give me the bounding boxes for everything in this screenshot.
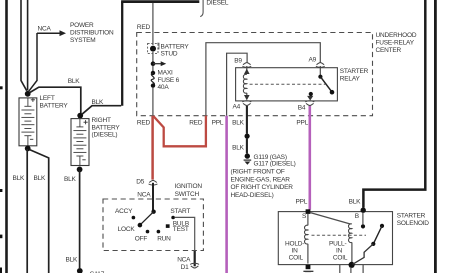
solenoid blade link — [353, 244, 374, 264]
wire: junction to fuse — [152, 66, 154, 71]
svg-text:PPL: PPL — [296, 120, 308, 127]
svg-text:PPL: PPL — [212, 120, 224, 127]
svg-text:RED: RED — [137, 120, 151, 127]
wire: B9 into relay with up arrow — [246, 66, 248, 74]
node: right battery negative terminal — [77, 167, 83, 173]
svg-text:S: S — [302, 213, 307, 220]
svg-text:BLK: BLK — [92, 99, 105, 106]
svg-text:CENTER: CENTER — [376, 47, 402, 54]
tick marks left edge — [0, 86, 3, 89]
relay coil — [243, 74, 246, 93]
ignition switch blade to LOCK — [140, 212, 153, 225]
contact OFF — [146, 230, 150, 234]
svg-text:IN: IN — [292, 247, 299, 254]
wire: solenoid bottom stub 1 — [339, 265, 341, 273]
solenoid contact B — [361, 224, 365, 228]
svg-text:B: B — [355, 213, 359, 220]
wire: stud to junction — [152, 52, 154, 62]
svg-text:UNDERHOOD: UNDERHOOD — [376, 32, 417, 39]
contact START — [171, 216, 175, 220]
node: battery stud — [150, 46, 156, 52]
wire: battery positive cable 3 — [27, 0, 29, 91]
svg-text:BLK: BLK — [232, 120, 245, 127]
relay coil down arrow — [246, 93, 248, 95]
svg-text:A9: A9 — [309, 57, 317, 64]
minus sign left battery — [30, 138, 33, 140]
svg-text:BATTERY: BATTERY — [161, 44, 190, 51]
minus sign right battery — [82, 159, 85, 161]
wire: thick left battery cable — [5, 0, 8, 273]
terminal B4 — [306, 103, 314, 105]
relay B4 down arrow — [307, 96, 313, 101]
plus sign left battery — [31, 98, 35, 102]
battery stud dashed bracket — [148, 43, 158, 53]
svg-text:BLK: BLK — [34, 175, 47, 182]
wire: left battery ground 2 — [30, 150, 49, 273]
hold-in coil — [304, 225, 307, 244]
svg-text:NCA: NCA — [177, 257, 191, 264]
svg-text:B9: B9 — [234, 58, 242, 65]
starter solenoid box — [278, 212, 392, 265]
node: ground junction G — [77, 268, 83, 273]
relay switch contact B4 — [309, 92, 313, 96]
node: right battery positive junction — [77, 113, 83, 119]
svg-text:A4: A4 — [233, 104, 241, 111]
wire: BLK from A4 to ground — [246, 106, 248, 134]
svg-text:RIGHT: RIGHT — [92, 117, 111, 124]
wire: BLK to ground — [246, 139, 248, 154]
wire: BLK jumper left battery to right battery — [30, 87, 81, 113]
ignition switch dashed box — [103, 199, 203, 251]
svg-text:(RIGHT FRONT OF: (RIGHT FRONT OF — [231, 169, 285, 176]
wire: hold-in coil to ground — [307, 244, 309, 264]
svg-text:RED: RED — [137, 24, 151, 31]
wire: S to pull-in coil — [310, 213, 350, 225]
wire: right battery ground — [79, 170, 81, 268]
wire: right battery positive to top cable — [82, 106, 121, 115]
wire: fuse to box edge — [152, 87, 154, 115]
svg-text:BLK: BLK — [232, 145, 245, 152]
solenoid contact blade top — [380, 224, 384, 228]
svg-text:TEST: TEST — [173, 226, 189, 233]
node: hold-in ground terminal — [306, 265, 311, 269]
node: junction arrow — [151, 61, 156, 66]
node: motor junction — [349, 262, 355, 268]
wire: pull-in coil to junction — [351, 242, 353, 262]
svg-text:ACCY: ACCY — [115, 208, 133, 215]
svg-text:RELAY: RELAY — [340, 76, 361, 83]
ground symbol G119/G117 — [244, 159, 252, 161]
svg-text:HEAD-DIESEL): HEAD-DIESEL) — [231, 192, 274, 199]
svg-text:COIL: COIL — [289, 254, 304, 261]
wire: START to D1 — [175, 217, 195, 251]
wire: PPL left to bottom — [225, 116, 228, 273]
svg-text:OFF: OFF — [135, 236, 148, 243]
terminal D1 — [191, 266, 199, 268]
ignition switch pivot — [151, 210, 155, 214]
battery B2 right battery box — [71, 119, 89, 166]
node: solenoid S terminal — [306, 209, 311, 214]
wire: red jog to relay A9 feed — [153, 116, 206, 147]
svg-text:PPL: PPL — [296, 198, 308, 205]
svg-text:MAXI: MAXI — [158, 70, 173, 77]
svg-text:FUSE-RELAY: FUSE-RELAY — [376, 40, 415, 47]
node: ground G119/G117 — [245, 153, 250, 158]
svg-text:RUN: RUN — [157, 236, 171, 243]
underhood fuse-relay center dashed box — [137, 33, 373, 116]
svg-text:(DIESEL): (DIESEL) — [92, 132, 118, 139]
svg-text:IGNITION: IGNITION — [175, 183, 203, 190]
svg-text:BLK: BLK — [66, 256, 79, 263]
svg-text:FUSE 6: FUSE 6 — [158, 77, 180, 84]
svg-text:NCA: NCA — [137, 191, 151, 198]
node: left battery negative terminal — [25, 146, 31, 152]
wire: PPL from B4 to solenoid S — [308, 106, 311, 210]
contact BULB TEST — [166, 224, 170, 228]
svg-text:BATTERY: BATTERY — [40, 102, 69, 109]
contact ACCY — [132, 216, 136, 220]
svg-text:DIESEL: DIESEL — [206, 0, 229, 6]
svg-text:NCA: NCA — [38, 26, 52, 33]
svg-text:RED: RED — [189, 120, 203, 127]
node: left battery positive junction — [25, 91, 31, 97]
svg-text:BLK: BLK — [13, 175, 26, 182]
relay U1 box — [236, 68, 338, 101]
wire: S to hold-in coil — [307, 214, 309, 226]
battery B1 left battery box — [19, 98, 37, 146]
svg-text:BLK: BLK — [64, 176, 77, 183]
wire: NCA wire to power distribution — [29, 33, 37, 91]
node: BLK junction — [245, 134, 250, 139]
wire: left battery ground 1 — [26, 149, 28, 273]
solenoid blade — [374, 226, 383, 244]
svg-text:SOLENOID: SOLENOID — [397, 220, 429, 227]
wire: solenoid bottom stub 2 (motor) — [350, 267, 352, 273]
battery plates left — [21, 98, 34, 146]
brace DIESEL — [200, 0, 203, 17]
svg-text:BLK: BLK — [68, 78, 81, 85]
wire: thick top cable — [121, 0, 199, 3]
relay switch contact A9 — [318, 75, 322, 79]
svg-text:STARTER: STARTER — [397, 212, 426, 219]
svg-text:DISTRIBUTION: DISTRIBUTION — [70, 30, 114, 37]
svg-text:LEFT: LEFT — [40, 95, 55, 102]
bracket right of stud — [157, 43, 159, 49]
arrow to power distribution system — [60, 30, 67, 36]
terminal B9 — [243, 63, 251, 65]
svg-text:D5: D5 — [136, 179, 144, 186]
wire: PPL feed up to relay B9 — [227, 53, 248, 115]
wire: battery positive cable 2 — [21, 0, 27, 91]
relay switch blade — [320, 77, 331, 92]
svg-text:ENGINE-GAS, REAR: ENGINE-GAS, REAR — [231, 176, 291, 183]
svg-text:LOCK: LOCK — [118, 226, 136, 233]
wire: solenoid bottom stub 3 — [362, 265, 364, 273]
battery plates right — [73, 119, 86, 166]
terminal A9 — [317, 63, 325, 65]
svg-text:BATTERY: BATTERY — [92, 124, 121, 131]
svg-text:BLK: BLK — [349, 198, 362, 205]
terminal A4 — [243, 103, 251, 105]
svg-text:STARTER: STARTER — [340, 68, 369, 75]
wire: battery stud feed — [152, 3, 154, 45]
wire: B to contact — [362, 213, 364, 225]
wire: thick right cable 2 — [434, 0, 437, 273]
relay actuation dashed line — [250, 83, 326, 85]
ground symbol solenoid — [303, 270, 313, 272]
svg-text:D1: D1 — [181, 264, 189, 271]
wire: thick BLK right cable to solenoid B — [363, 0, 425, 208]
wire: A9 into relay — [319, 66, 321, 75]
svg-text:SWITCH: SWITCH — [175, 191, 200, 198]
svg-text:COIL: COIL — [333, 254, 348, 261]
terminal D5 — [149, 180, 157, 182]
svg-text:POWER: POWER — [70, 22, 94, 29]
wire: red feed down to ignition switch D5 — [151, 116, 154, 180]
svg-text:OF RIGHT CYLINDER: OF RIGHT CYLINDER — [231, 184, 294, 191]
plus sign right battery — [84, 120, 88, 124]
arrow branch right — [153, 63, 161, 65]
contact RUN — [157, 230, 161, 234]
svg-text:40A: 40A — [158, 84, 170, 91]
svg-text:G117 (DIESEL): G117 (DIESEL) — [254, 160, 296, 167]
wire: thick cable up right of batteries — [121, 2, 123, 106]
svg-text:IN: IN — [336, 247, 343, 254]
pull-in coil — [348, 224, 351, 243]
wire: relay A9 feed (inside box) — [206, 43, 320, 116]
svg-text:STUD: STUD — [161, 51, 178, 58]
fuse MAXI FUSE 6 40A — [151, 71, 155, 75]
svg-text:START: START — [170, 208, 190, 215]
svg-text:SYSTEM: SYSTEM — [70, 37, 96, 44]
wire: D5 to ignition pivot — [152, 183, 154, 210]
node: solenoid B terminal — [361, 208, 366, 213]
svg-text:B4: B4 — [298, 105, 306, 112]
solenoid actuation dashed line — [312, 234, 367, 236]
